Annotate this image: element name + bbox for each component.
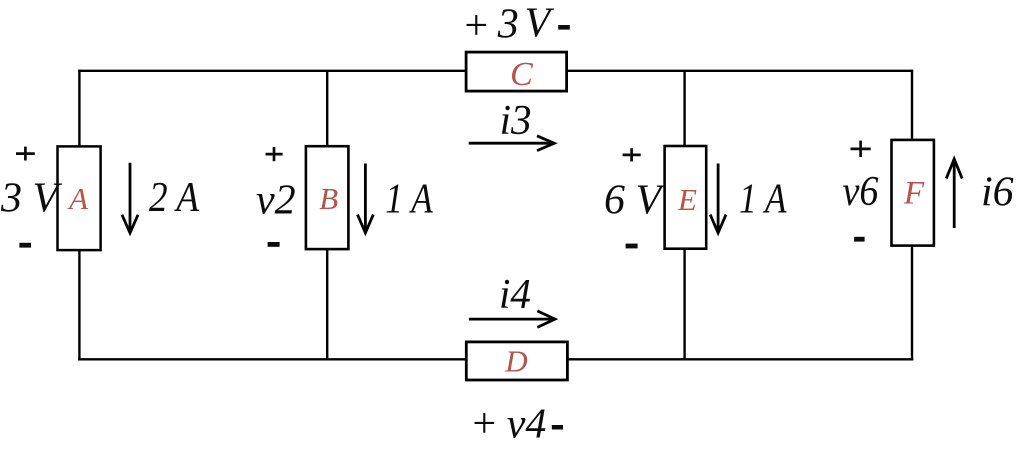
svg-text:+: + — [462, 3, 490, 49]
wire branch F bottom — [911, 246, 913, 361]
svg-text:v4: v4 — [507, 402, 547, 448]
wire bottom node: left segment from A to element D — [78, 358, 466, 360]
wire branch E bottom (junction at bottom node) — [683, 249, 685, 359]
svg-text:3: 3 — [497, 2, 519, 48]
current arrow 1 A (down, branch E) — [710, 164, 726, 233]
wire bottom node: right segment from element D to F — [568, 358, 913, 360]
current arrow i4 (right) — [469, 311, 555, 327]
svg-text:B: B — [319, 181, 338, 216]
polarity + for B — [266, 147, 283, 161]
polarity - for E — [626, 244, 638, 249]
svg-text:F: F — [903, 176, 925, 212]
svg-text:v2: v2 — [256, 178, 296, 224]
element D (box) — [466, 342, 567, 380]
svg-text:i6: i6 — [981, 169, 1014, 215]
current arrow 1 A (down, branch B) — [358, 164, 374, 233]
polarity + for A — [16, 147, 35, 161]
svg-text:+: + — [470, 401, 498, 447]
element A (box) — [58, 146, 101, 250]
svg-text:i4: i4 — [499, 272, 531, 318]
current arrow i3 (right) — [469, 136, 555, 151]
current arrow 2 A (down) — [122, 163, 138, 233]
element F (box) — [892, 140, 934, 246]
svg-text:D: D — [504, 343, 527, 378]
polarity - for F — [854, 237, 865, 242]
svg-text:A: A — [67, 181, 89, 216]
wire branch B top (junction at top node) — [326, 71, 328, 147]
svg-text:C: C — [510, 56, 533, 93]
element B (box) — [306, 146, 349, 249]
wire branch A top — [78, 70, 80, 147]
svg-text:V: V — [525, 1, 555, 47]
wire branch F top — [911, 70, 913, 140]
polarity - for B — [268, 242, 280, 247]
wire branch A bottom — [78, 250, 80, 361]
svg-text:E: E — [677, 182, 697, 217]
svg-text:3 V: 3 V — [0, 176, 63, 222]
wire branch B bottom (junction at bottom node) — [326, 250, 328, 360]
svg-text:6 V: 6 V — [604, 178, 666, 224]
current arrow i6 (up) — [946, 159, 962, 228]
wire top node: left segment from A to element C — [78, 70, 466, 72]
polarity + for F — [851, 141, 871, 157]
polarity + for E — [623, 148, 641, 161]
svg-text:1 A: 1 A — [739, 176, 787, 222]
wire top node: right segment from element C to F — [567, 70, 913, 72]
element E (box) — [665, 146, 707, 249]
svg-text:2 A: 2 A — [149, 175, 199, 221]
element C (box) — [466, 52, 566, 91]
svg-text:v6: v6 — [843, 169, 879, 215]
svg-text:1 A: 1 A — [385, 177, 433, 223]
wire branch E top (junction at top node) — [683, 71, 685, 146]
polarity - for A — [19, 243, 31, 248]
svg-text:i3: i3 — [500, 98, 532, 144]
